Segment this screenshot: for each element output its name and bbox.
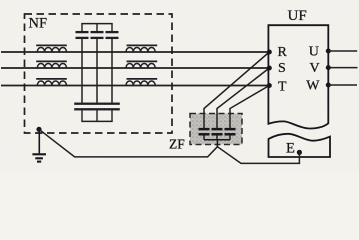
terminal R	[267, 45, 288, 60]
capacitor ZF-1	[199, 129, 210, 140]
junction (chassis ground dot)	[36, 127, 41, 132]
inductor L1c (left, phase T)	[36, 79, 67, 86]
svg-text:S: S	[278, 61, 286, 76]
inductor L1a (left, phase R)	[36, 45, 67, 52]
svg-text:ZF: ZF	[169, 137, 185, 152]
wire phase R (input line to terminal R)	[1, 51, 269, 53]
bus (top capacitor common)	[81, 23, 112, 25]
wire (output V)	[328, 67, 357, 69]
capacitor C3 (top, column 3)	[106, 24, 119, 38]
wire (ZF cap 1 to terminal R)	[204, 52, 269, 129]
svg-text:NF: NF	[29, 16, 48, 32]
wire (column 2 vertical through phases)	[96, 39, 98, 103]
wire phase S (input line to terminal S)	[1, 67, 269, 69]
wire (ZF common stub down)	[216, 140, 218, 147]
svg-text:T: T	[278, 80, 287, 95]
capacitor C6 (bottom, column 3)	[104, 104, 120, 122]
terminal S	[267, 61, 286, 76]
terminal E	[286, 140, 302, 156]
bus (bottom capacitor common)	[81, 120, 112, 122]
enclosure E (ground terminal box with torn top)	[269, 134, 331, 157]
enclosure UF (inverter box with torn bottom)	[268, 25, 328, 128]
bus (ZF capacitor common)	[204, 139, 230, 141]
svg-text:UF: UF	[288, 8, 307, 24]
svg-text:V: V	[310, 61, 320, 76]
inductor L1b (left, phase S)	[36, 61, 67, 68]
capacitor C2 (top, column 2)	[91, 24, 104, 38]
svg-text:R: R	[278, 45, 288, 60]
wire (column 1 vertical through phases)	[81, 39, 83, 103]
wire (ZF cap 2 to terminal S)	[217, 68, 269, 129]
enclosure ZF (shaded box, dashed)	[190, 114, 242, 145]
inductor L2c (right, phase T)	[126, 79, 157, 86]
capacitor ZF-2	[212, 129, 223, 140]
wire (terminal E to ZF common)	[217, 147, 299, 164]
enclosure NF (dashed noise-filter box)	[25, 14, 173, 133]
capacitor C1 (top, column 1)	[76, 24, 89, 38]
capacitor C4 (bottom, column 1)	[74, 104, 90, 122]
inductor L2b (right, phase S)	[126, 61, 157, 68]
svg-text:E: E	[286, 140, 295, 156]
inductor L2a (right, phase R)	[126, 45, 157, 52]
wire (column 3 vertical through phases)	[111, 39, 113, 103]
capacitor C5 (bottom, column 2)	[89, 104, 105, 122]
terminal T	[267, 80, 287, 95]
capacitor ZF-3	[225, 129, 236, 140]
wire (output U)	[328, 50, 357, 52]
terminal W	[306, 78, 331, 93]
wire (ZF cap 3 to terminal T)	[230, 86, 269, 130]
svg-text:W: W	[306, 78, 320, 93]
wire (ground junction to ZF common)	[39, 129, 217, 157]
terminal U	[309, 44, 331, 59]
terminal V	[310, 61, 331, 76]
wire (output W)	[328, 84, 357, 86]
wire phase T (input line to terminal T)	[1, 85, 269, 87]
ground	[32, 129, 46, 161]
svg-text:U: U	[309, 44, 319, 59]
